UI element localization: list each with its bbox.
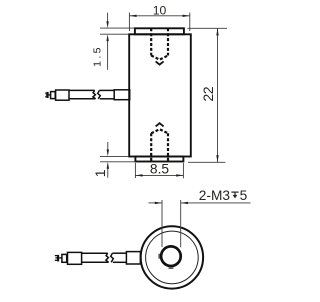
svg-text:22: 22 <box>201 86 217 101</box>
cable segment right of break <box>99 89 114 91</box>
depth symbol <box>231 192 238 195</box>
inner circle (flange) <box>146 231 199 284</box>
hidden hole drill point chevron (top) <box>156 61 164 64</box>
cable break zigzag (left piece) <box>93 90 96 98</box>
svg-text:2-M3: 2-M3 <box>199 188 231 203</box>
hidden hole drill point chevron (bottom) <box>156 123 164 126</box>
hidden tapped hole (top), dashed <box>151 28 168 59</box>
top boss <box>135 28 184 34</box>
connector tip bar <box>47 92 49 98</box>
cable segment left of break <box>82 252 108 254</box>
svg-text:8.5: 8.5 <box>150 161 170 176</box>
connector body (large) <box>56 90 69 100</box>
cable segment left of break <box>69 89 95 91</box>
cable assembly (bottom view) <box>58 252 140 265</box>
svg-text:1.5: 1.5 <box>91 45 103 67</box>
hidden tapped hole (bottom), dashed <box>151 129 168 161</box>
cable break zigzag (right piece) <box>98 90 101 98</box>
M3 tapped hole: hole circle <box>161 246 181 266</box>
dimension 1.5 (left, boss height) <box>100 13 134 70</box>
svg-text:1: 1 <box>92 169 108 177</box>
svg-text:10: 10 <box>153 3 167 17</box>
cable segment right of break <box>112 252 126 254</box>
dimension 1 (left, flange height) <box>100 142 134 178</box>
connector body (large) <box>68 252 82 264</box>
connector neck (small) <box>51 92 56 99</box>
M3 tapped hole: thread thin arc <box>159 254 173 268</box>
strain relief at body <box>126 252 140 264</box>
connector tip bar <box>57 255 59 262</box>
dimension 10 (top) <box>129 13 189 32</box>
outer circle (body) <box>141 226 203 288</box>
svg-text:5: 5 <box>240 188 248 203</box>
dimension 2-M3 depth 5 <box>149 200 251 247</box>
dimension 22 (right) <box>188 28 228 162</box>
connector neck (small) <box>62 254 67 262</box>
strain relief at body <box>114 90 130 100</box>
bottom flange <box>135 157 183 162</box>
cable assembly (front view) <box>48 90 130 100</box>
body (front view cylinder outline) <box>129 34 191 156</box>
dimension 8.5 (bottom flange width) <box>135 163 183 178</box>
connector tip prongs <box>45 92 48 94</box>
